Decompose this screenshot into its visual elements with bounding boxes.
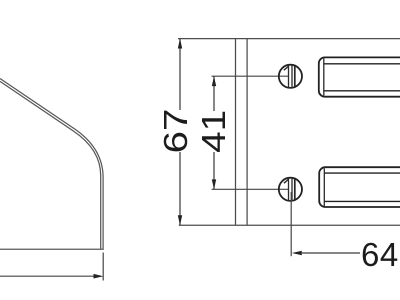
front view bottom edge / extension — [179, 224, 400, 226]
svg-text:67: 67 — [158, 109, 195, 154]
dimension 64 arrow left — [292, 251, 302, 255]
screw S1 left chord line — [288, 65, 290, 88]
dimension 64 line — [302, 252, 360, 254]
screw S2 top-left tick — [284, 179, 289, 183]
slot T2 inner vertical line — [323, 168, 325, 206]
svg-text:64: 64 — [361, 236, 399, 273]
slot T2 outer outline (bottom) — [319, 167, 400, 207]
side view inner profile (sheet thickness line) — [0, 81, 101, 249]
slot T1 outer outline (top) — [319, 57, 400, 96]
screw S2 slot line left — [291, 178, 293, 201]
slot T2 inner top line — [324, 172, 400, 174]
dimension 41 arrow up — [212, 76, 216, 86]
dimension 67 arrow up — [178, 39, 182, 49]
slot T1 inner vertical line — [323, 59, 325, 96]
side view width dimension line (value off-canvas) — [0, 275, 94, 277]
dimension 67 line lower segment — [179, 152, 181, 225]
front view left edge — [235, 39, 237, 226]
slot T1 inner top line — [324, 63, 400, 65]
dimension 41 arrow down — [212, 179, 216, 189]
slot T1 inner bottom line — [324, 90, 400, 92]
side view width extension line — [102, 253, 104, 281]
side view bottom edge — [0, 248, 104, 250]
dimension 41 upper extension line — [212, 75, 289, 77]
screw S2 head circle (bottom) — [279, 178, 302, 201]
screw S1 slot line right — [294, 66, 296, 87]
front view top edge / extension — [178, 38, 400, 40]
screw S1 slot line left — [291, 65, 293, 88]
side view dimension arrow (right) — [94, 274, 104, 279]
slot T2 inner bottom line — [324, 200, 400, 202]
dimension 41 line lower segment — [213, 152, 215, 189]
dimension 67 line upper segment — [179, 39, 181, 110]
screw S1 top-left tick — [284, 66, 289, 70]
dimension 67 arrow down — [178, 215, 182, 225]
screw S1 head circle (top) — [279, 65, 302, 88]
side view outer profile (bent sheet, top surface) — [0, 79, 103, 250]
dimension 41 lower extension line — [212, 188, 289, 190]
front view bend line — [246, 39, 248, 226]
screw S2 slot line right — [294, 179, 296, 200]
screw S2 left chord line — [288, 178, 290, 201]
svg-text:41: 41 — [195, 110, 233, 153]
dimension 41 line upper segment — [213, 76, 215, 111]
dimension 64 extension line from screw S2 — [290, 192, 292, 256]
